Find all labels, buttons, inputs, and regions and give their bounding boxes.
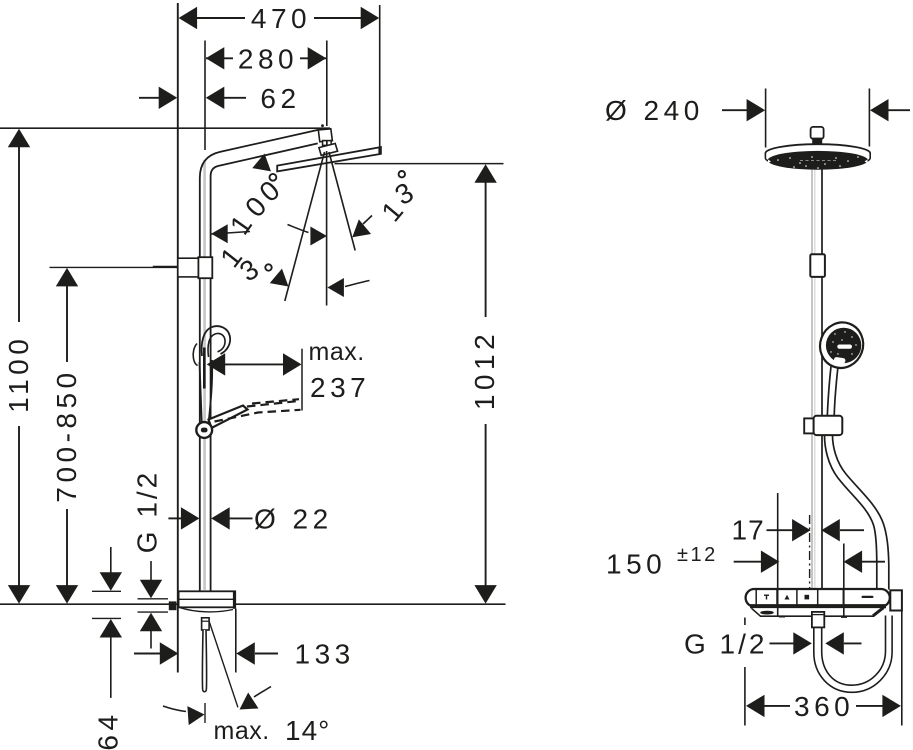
head end cap <box>378 147 381 155</box>
150 dim <box>734 561 762 563</box>
G12 outlet connector <box>812 612 824 628</box>
17 dim <box>767 529 793 531</box>
handle inner dark line <box>203 348 206 389</box>
shelf valve side view <box>179 591 236 607</box>
pipe right edge + elbow inner <box>211 143 318 590</box>
dim 280 extension lines <box>204 41 206 151</box>
arrows 100deg <box>211 224 228 243</box>
svg-text:Ø 240: Ø 240 <box>605 95 704 126</box>
G12 leader line <box>150 561 152 585</box>
handle right edge <box>209 360 213 424</box>
arrows 13deg right <box>346 219 371 244</box>
outlet nipple <box>202 618 210 630</box>
svg-text:62: 62 <box>260 83 300 114</box>
pipe left edge + elbow outer <box>200 130 319 591</box>
arrows 360 <box>746 695 765 717</box>
holder arm dashed upper <box>215 410 301 422</box>
arrows 13deg left <box>270 269 295 294</box>
13deg left leaders <box>345 281 370 287</box>
G12 dim <box>770 642 795 644</box>
arrows 280 <box>206 47 225 69</box>
handshower curl outer <box>202 326 231 356</box>
svg-text:G 1/2: G 1/2 <box>132 470 163 553</box>
holder arm solid <box>209 406 248 429</box>
ball joint dark block <box>322 140 332 149</box>
floor reference line <box>0 603 506 605</box>
svg-text:14°: 14° <box>285 715 330 746</box>
svg-text:64: 64 <box>93 710 124 750</box>
shower head side view <box>277 147 381 171</box>
wall line <box>177 3 179 673</box>
holder release bump <box>193 344 197 366</box>
hose S-curve to valve <box>825 435 877 589</box>
dim 1100 line <box>18 131 20 322</box>
svg-text:max.: max. <box>214 717 270 745</box>
svg-text:1012: 1012 <box>469 330 500 410</box>
arrows 17 <box>792 519 811 541</box>
ceiling reference line <box>0 127 330 129</box>
temperature end cap <box>890 590 902 610</box>
360 extension lines <box>744 618 746 626</box>
center dash-dot line <box>809 515 811 589</box>
pivot circle <box>196 422 212 438</box>
dim 62 <box>139 97 160 99</box>
hose U-loop below valve <box>814 616 892 693</box>
max14 leaders <box>163 706 186 712</box>
wall bracket <box>178 258 200 277</box>
svg-text:360: 360 <box>794 691 854 722</box>
dim 700-850 line <box>66 270 68 362</box>
overhead shower plate rim <box>765 144 870 162</box>
wall supply block <box>169 601 177 610</box>
bracket tick <box>153 266 178 268</box>
arrows dia240 <box>747 99 766 121</box>
max237 end tick <box>301 349 303 411</box>
dia240 dim line <box>722 109 747 111</box>
handshower face <box>826 328 861 363</box>
360 dim line <box>765 705 791 707</box>
svg-text:±12: ±12 <box>677 544 718 566</box>
handshower ring <box>814 316 870 374</box>
svg-text:1100: 1100 <box>3 335 34 413</box>
svg-text:237: 237 <box>310 372 370 403</box>
handshower hose upper <box>827 367 831 416</box>
svg-text:Ø 22: Ø 22 <box>254 503 333 534</box>
dim dia22 <box>168 517 182 519</box>
hansgrohe pill <box>837 345 852 349</box>
svg-text:150: 150 <box>606 549 666 580</box>
arrows dia22 <box>181 507 200 529</box>
wall bar holder <box>804 418 814 433</box>
svg-text:133: 133 <box>295 639 355 670</box>
100deg leader <box>212 232 251 235</box>
arrows G12 small dim <box>140 580 162 599</box>
pipe front view <box>811 168 813 589</box>
holder arm dashed lower <box>247 401 301 407</box>
dim 133 <box>134 653 161 655</box>
arrows 470 <box>179 7 198 29</box>
connector wedge <box>319 144 338 156</box>
arrows 64 <box>100 572 122 591</box>
arrows 133 <box>160 642 179 664</box>
lever arc base line <box>204 703 206 723</box>
tiny pivot dot <box>321 124 324 127</box>
dia240 extension lines <box>765 89 767 148</box>
pipe gray centerline <box>203 160 206 590</box>
svg-text:280: 280 <box>238 43 298 74</box>
head-top reference line <box>335 163 504 165</box>
dim max237 line <box>224 363 284 365</box>
button icons <box>764 595 874 600</box>
handle left edge <box>200 362 202 424</box>
lever handle <box>202 630 206 692</box>
svg-text:G 1/2: G 1/2 <box>684 628 767 659</box>
arrows G12 right <box>793 632 812 654</box>
arrows max237 <box>207 353 226 375</box>
handshower curl inner <box>208 333 225 357</box>
svg-text:max.: max. <box>309 338 365 366</box>
arrows 1012 <box>474 164 496 183</box>
dim 470 <box>379 5 381 147</box>
mode button <box>834 357 846 364</box>
slider unit <box>810 254 825 277</box>
head stem <box>811 127 824 139</box>
svg-text:17: 17 <box>732 515 765 546</box>
dim 64 lines <box>110 547 112 573</box>
arrows 1100 <box>8 129 30 148</box>
13deg right leaders <box>363 216 372 225</box>
arrows 700-850 <box>56 268 78 287</box>
arrows max14 <box>187 705 205 725</box>
head connector upper <box>318 129 332 142</box>
apron shadow marks <box>760 611 774 615</box>
lever swing line <box>209 622 238 708</box>
spray left line <box>285 152 325 301</box>
arrows 150 <box>761 551 780 573</box>
spray center line <box>326 151 328 306</box>
svg-text:470: 470 <box>251 3 311 34</box>
arrows 62 <box>159 87 178 109</box>
svg-text:700-850: 700-850 <box>51 368 82 502</box>
thermostat apron <box>752 608 884 616</box>
dim 1012 line <box>485 167 487 317</box>
button dividers <box>755 590 757 606</box>
thermostat bar front <box>746 589 890 607</box>
spray right line <box>329 152 355 251</box>
extension lines mid <box>777 493 779 616</box>
overhead shower spray face <box>765 154 870 168</box>
